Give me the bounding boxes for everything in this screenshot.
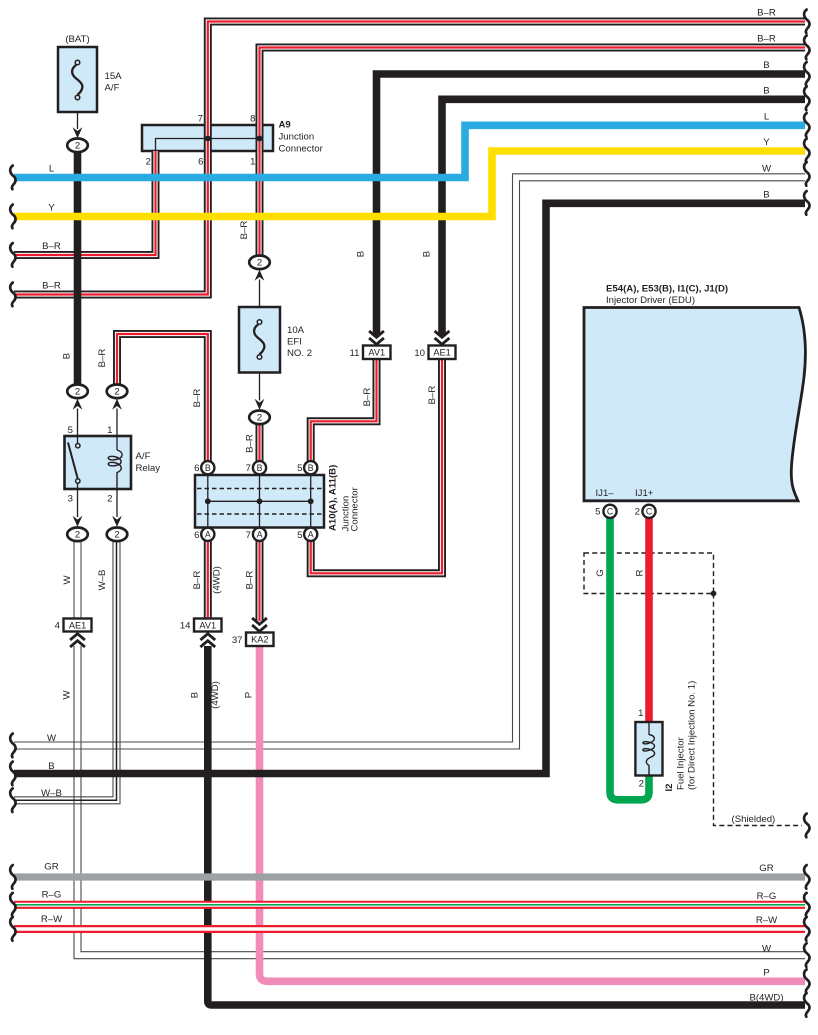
wire W left rail over to right rail xyxy=(14,174,805,749)
wire label W (rotated) xyxy=(62,575,73,585)
svg-text:A/F: A/F xyxy=(105,83,120,94)
wire B-R relay pin 1 up and over to A10 pin 6(B) xyxy=(117,334,208,462)
svg-text:A: A xyxy=(205,530,211,540)
wire label (4WD) (rotated) xyxy=(212,566,223,594)
label A/F Relay xyxy=(136,451,161,474)
arrow and link from connector 2 to relay pin 1 xyxy=(112,399,122,436)
A10 pin numbers xyxy=(194,463,302,541)
wire break squiggle right y=825.5 xyxy=(804,814,809,838)
wire label B (rotated) xyxy=(62,353,73,359)
rail label right B&#8211;R xyxy=(757,8,776,19)
svg-text:6: 6 xyxy=(198,157,203,168)
fuel injector I2 box with coil xyxy=(635,722,662,776)
wire break squiggle left y=800.3 xyxy=(10,788,15,812)
wire W-B left rail to relay pin 2 xyxy=(14,542,120,804)
svg-text:B(4WD): B(4WD) xyxy=(749,992,783,1003)
wire label B (rotated) xyxy=(422,251,433,257)
label (BAT) xyxy=(65,34,89,45)
wire break squiggle right y=1005 xyxy=(804,993,809,1017)
svg-text:E54(A), E53(B), I1(C), J1(D): E54(A), E53(B), I1(C), J1(D) xyxy=(606,284,728,295)
svg-text:2: 2 xyxy=(75,530,80,541)
svg-text:2: 2 xyxy=(639,779,644,790)
wire label B&#8211;R (rotated) xyxy=(239,221,250,240)
fuse 15A A/F box xyxy=(58,47,97,112)
svg-text:A9: A9 xyxy=(279,120,291,131)
wire B thick rail to 11 AV1 xyxy=(377,74,806,336)
svg-text:KA2: KA2 xyxy=(251,635,268,645)
wire break squiggle right y=929 xyxy=(804,917,809,941)
svg-text:Fuel Injector: Fuel Injector xyxy=(676,736,687,790)
EDU pin 2(C) circle IJ1+ xyxy=(642,505,655,518)
label 15A A/F xyxy=(105,71,123,94)
svg-text:Connector: Connector xyxy=(350,486,361,531)
A10 pin 7(B) circle xyxy=(253,461,266,474)
connector 2 above relay pin 5 xyxy=(67,385,88,399)
wire break squiggle left y=929 xyxy=(10,917,15,941)
link relay pin 2 with arrow into connector 2 xyxy=(112,489,122,527)
wire W relay pin 3 to connector 4 AE1 xyxy=(74,542,81,620)
svg-text:B: B xyxy=(763,60,769,71)
rail label right P xyxy=(763,968,769,979)
wire label B&#8211;R (rotated) xyxy=(362,388,373,407)
rail label right B(4WD) xyxy=(749,992,783,1003)
svg-text:GR: GR xyxy=(44,862,58,873)
wire label W&#8211;B (rotated) xyxy=(97,570,108,591)
arrow and link from connector 2 to relay pin 5 xyxy=(73,399,83,436)
svg-text:W: W xyxy=(47,733,57,744)
wire label B (rotated) xyxy=(356,251,367,257)
double chevron into 11 AV1 xyxy=(369,331,384,344)
node A10 bus junction pin 6 xyxy=(205,498,211,504)
svg-text:R–W: R–W xyxy=(756,915,778,926)
wire break squiggle right y=74 xyxy=(804,62,809,86)
double chevron into 37 KA2 xyxy=(252,618,267,631)
connector box 37 KA2 xyxy=(232,633,274,647)
wire label B (rotated) xyxy=(190,692,201,698)
wire B left rail over to right rail xyxy=(14,203,805,773)
svg-text:R–G: R–G xyxy=(757,891,777,902)
svg-text:3: 3 xyxy=(68,494,73,505)
A9 pin numbers xyxy=(146,114,256,168)
svg-text:2: 2 xyxy=(257,413,262,424)
svg-text:2: 2 xyxy=(75,141,80,152)
svg-text:IJ1–: IJ1– xyxy=(596,488,615,499)
rail label right W xyxy=(762,944,772,955)
svg-text:R–G: R–G xyxy=(42,890,62,901)
wire B-R rail through A9 pins 7/6 xyxy=(14,22,805,295)
wire break squiggle right y=981.3 xyxy=(804,969,809,993)
svg-text:W: W xyxy=(62,575,73,585)
rail label right R&#8211;G xyxy=(757,891,777,902)
wire break squiggle right y=877 xyxy=(804,865,809,889)
wire B-R fuse 10A to A10 pin 7(B) xyxy=(256,425,264,462)
svg-text:B: B xyxy=(308,463,314,473)
svg-text:6: 6 xyxy=(194,463,199,474)
wire label B&#8211;R (rotated) xyxy=(192,389,203,408)
svg-text:B–R: B–R xyxy=(97,349,108,368)
wire R-G rail xyxy=(14,901,805,909)
wire break squiggle left y=255 xyxy=(10,243,15,267)
connector 2 above relay pin 1 xyxy=(107,385,128,399)
svg-text:R: R xyxy=(635,569,646,576)
rail label left R&#8211;W xyxy=(41,914,63,925)
connector 2 below relay pin 2 xyxy=(107,528,128,542)
label E54/E53 header xyxy=(606,284,728,307)
wire P from 37 KA2 to bottom rail xyxy=(260,646,806,981)
svg-text:NO. 2: NO. 2 xyxy=(287,348,312,359)
svg-text:B–R: B–R xyxy=(239,221,250,240)
junction connector A10(A),A11(B) box xyxy=(195,475,324,528)
A10 pin 6(B) circle xyxy=(201,461,214,474)
relay A/F box xyxy=(65,436,132,489)
svg-text:B–R: B–R xyxy=(362,388,373,407)
svg-text:A/F: A/F xyxy=(136,451,151,462)
wire break squiggle left y=745.5 xyxy=(10,734,15,758)
svg-text:Y: Y xyxy=(763,137,770,148)
svg-text:B–R: B–R xyxy=(244,571,255,590)
relay pin numbers xyxy=(68,425,113,505)
svg-text:B: B xyxy=(190,692,201,698)
svg-text:7: 7 xyxy=(198,114,203,125)
wire label B&#8211;R (rotated) xyxy=(244,434,255,453)
svg-text:A10(A), A11(B): A10(A), A11(B) xyxy=(328,465,339,531)
svg-text:2: 2 xyxy=(146,157,151,168)
link relay pin 3 with arrow into connector 2 xyxy=(73,489,83,527)
wire break squiggle right y=150.5 xyxy=(804,139,809,163)
svg-text:B: B xyxy=(763,86,769,97)
svg-text:W–B: W–B xyxy=(41,788,62,799)
svg-text:1: 1 xyxy=(638,708,643,719)
wire B-R A10 pin 7(A) to connector 37 KA2 xyxy=(256,541,264,622)
A10 pin 5(B) circle xyxy=(304,461,317,474)
svg-text:W: W xyxy=(762,164,772,175)
rail label left GR xyxy=(44,862,58,873)
svg-text:B–R: B–R xyxy=(427,386,438,405)
connector box 10 AE1 xyxy=(414,346,455,360)
svg-text:8: 8 xyxy=(250,114,255,125)
wire label P (rotated) xyxy=(244,692,255,698)
wire B-R A10 pin 6(A) to connector 14 AV1 xyxy=(204,541,212,620)
svg-text:37: 37 xyxy=(232,635,243,646)
wire break squiggle right y=174 xyxy=(804,162,809,186)
rail label right B&#8211;R xyxy=(757,34,776,45)
rail label left B&#8211;R xyxy=(42,281,61,292)
wire break squiggle left y=773.5 xyxy=(10,762,15,786)
wire label G (rotated) xyxy=(595,569,606,576)
rail label right Y xyxy=(763,137,770,148)
node A9 bus junction at pin 1 xyxy=(257,136,263,142)
wire B(4WD) from 14 AV1 to bottom rail xyxy=(208,646,805,1005)
svg-text:B: B xyxy=(763,190,769,201)
rail label right L xyxy=(764,112,770,123)
svg-text:10A: 10A xyxy=(287,325,305,336)
svg-text:(BAT): (BAT) xyxy=(65,34,89,45)
connector 2 on B-R above fuse 10A xyxy=(249,255,270,269)
svg-text:Connector: Connector xyxy=(279,144,324,155)
svg-text:6: 6 xyxy=(194,530,199,541)
wire B thick rail to 10 AE1 xyxy=(442,99,805,335)
wire B-R rail to A9 pin 2 xyxy=(14,151,156,255)
A10 pin 7(A) circle xyxy=(253,528,266,541)
svg-text:I2: I2 xyxy=(664,783,675,791)
wire label B&#8211;R (rotated) xyxy=(244,571,255,590)
svg-text:2: 2 xyxy=(635,507,640,518)
svg-text:L: L xyxy=(49,164,55,175)
svg-text:(4WD): (4WD) xyxy=(212,566,223,594)
svg-text:2: 2 xyxy=(75,387,80,398)
svg-text:P: P xyxy=(763,968,769,979)
svg-text:W–B: W–B xyxy=(97,570,108,591)
svg-text:B–R: B–R xyxy=(244,434,255,453)
svg-text:Relay: Relay xyxy=(136,463,161,474)
rail label right R&#8211;W xyxy=(756,915,778,926)
svg-text:5: 5 xyxy=(595,507,600,518)
labels IJ1- and IJ1+ xyxy=(596,488,654,499)
wire B-R from A9 pin 1 down to connector 2 above fuse 10A xyxy=(256,151,264,256)
svg-text:P: P xyxy=(244,692,255,698)
wire break squiggle right y=125 xyxy=(804,113,809,137)
svg-text:(for Direct Injection No. 1): (for Direct Injection No. 1) xyxy=(687,681,698,790)
label I2 Fuel Injector (rotated) xyxy=(664,681,698,792)
arrow and link from connector 2 into fuse 10A xyxy=(255,270,265,307)
rail label left Y xyxy=(48,203,55,214)
wire Y rail xyxy=(14,151,805,217)
svg-text:2: 2 xyxy=(107,494,112,505)
shield dashed box around G and R wires xyxy=(584,553,714,594)
svg-text:7: 7 xyxy=(246,530,251,541)
connector box 14 AV1 xyxy=(180,619,222,632)
svg-text:EFI: EFI xyxy=(287,337,302,348)
wire B-R rail through A9 pin 8 xyxy=(260,48,806,152)
rail label right B xyxy=(763,86,769,97)
connector 2 below fuse 10A xyxy=(249,411,270,425)
label A10(A), A11(B) Junction Connector (rotated) xyxy=(328,465,361,532)
svg-text:B–R: B–R xyxy=(757,8,776,19)
svg-text:5: 5 xyxy=(68,425,73,436)
wire L rail xyxy=(14,125,805,177)
rail label right B xyxy=(763,60,769,71)
svg-text:B: B xyxy=(205,463,211,473)
svg-text:7: 7 xyxy=(246,463,251,474)
double chevron below 14 AV1 xyxy=(200,634,215,647)
svg-text:4: 4 xyxy=(55,621,61,632)
double chevron into 10 AE1 xyxy=(435,331,450,344)
wire label W (rotated) xyxy=(62,690,73,700)
svg-text:B–R: B–R xyxy=(192,571,203,590)
svg-text:Junction: Junction xyxy=(279,132,315,143)
fuse 15A output link with arrow into connector 2 xyxy=(73,112,83,138)
svg-text:R–W: R–W xyxy=(41,914,63,925)
rail label right B xyxy=(763,190,769,201)
svg-text:11: 11 xyxy=(350,348,360,359)
svg-text:AE1: AE1 xyxy=(433,348,450,358)
rail label left L xyxy=(49,164,55,175)
wire break squiggle right y=47.5 xyxy=(804,36,809,60)
svg-text:B: B xyxy=(356,251,367,257)
rail label left B&#8211;R xyxy=(42,241,61,252)
svg-text:5: 5 xyxy=(297,463,302,474)
svg-text:W: W xyxy=(62,690,73,700)
injector driver EDU box xyxy=(584,308,805,501)
wire break squiggle right y=21.5 xyxy=(804,10,809,34)
wire G from EDU IJ1- to injector pin 2 xyxy=(610,518,649,800)
wire label B&#8211;R (rotated) xyxy=(97,349,108,368)
svg-text:14: 14 xyxy=(180,621,191,632)
wire B-R from connector 10 AE1 down-left-up to A10 pin 5(A) xyxy=(311,359,442,573)
A10 pin 5(A) circle xyxy=(304,528,317,541)
wire break squiggle right y=904.8 xyxy=(804,893,809,917)
svg-text:2: 2 xyxy=(114,530,119,541)
node A10 bus junction pin 5 xyxy=(308,498,314,504)
svg-text:2: 2 xyxy=(257,258,262,269)
connector 2 below fuse 15A xyxy=(67,139,88,153)
wire R from EDU IJ1+ to injector pin 1 xyxy=(645,518,653,724)
svg-text:C: C xyxy=(646,507,653,517)
svg-text:(Shielded): (Shielded) xyxy=(732,814,776,825)
label 10A EFI NO. 2 xyxy=(287,325,312,359)
svg-text:GR: GR xyxy=(759,863,773,874)
svg-text:B: B xyxy=(257,463,263,473)
A10 pin 6(A) circle xyxy=(201,528,214,541)
wire B thick from fuse 15A to relay pin 5 xyxy=(74,152,82,385)
rail label right GR xyxy=(759,863,773,874)
connector box 11 AV1 xyxy=(350,346,391,360)
wire break squiggle left y=877 xyxy=(10,865,15,889)
wire break squiggle right y=203 xyxy=(804,191,809,215)
wire W from 4 AE1 down to right rail xyxy=(74,646,805,959)
svg-text:15A: 15A xyxy=(105,71,123,82)
wire break squiggle left y=216.5 xyxy=(10,205,15,229)
node A10 bus junction pin 7 xyxy=(257,498,263,504)
node shield drain junction xyxy=(711,591,717,597)
junction connector A9 box xyxy=(142,125,273,151)
svg-text:B: B xyxy=(62,353,73,359)
label A9 Junction Connector xyxy=(279,120,324,155)
svg-text:AE1: AE1 xyxy=(69,620,86,630)
svg-text:Injector Driver (EDU): Injector Driver (EDU) xyxy=(606,295,695,306)
svg-text:B: B xyxy=(48,761,54,772)
wire label R (rotated) xyxy=(635,569,646,576)
svg-text:B–R: B–R xyxy=(42,241,61,252)
wire break squiggle left y=904.8 xyxy=(10,893,15,917)
rail label left B xyxy=(48,761,54,772)
EDU pin 5(C) circle IJ1- xyxy=(603,505,616,518)
svg-text:5: 5 xyxy=(297,530,302,541)
injector pin numbers xyxy=(638,708,644,790)
svg-text:Y: Y xyxy=(48,203,55,214)
svg-text:B–R: B–R xyxy=(192,389,203,408)
svg-text:A: A xyxy=(308,530,314,540)
svg-text:AV1: AV1 xyxy=(199,620,216,630)
connector box 4 AE1 xyxy=(55,619,92,632)
double chevron below 4 AE1 xyxy=(70,634,85,647)
svg-text:B–R: B–R xyxy=(42,281,61,292)
wire GR rail xyxy=(14,873,805,880)
node A9 bus junction at pin 6 xyxy=(205,136,211,142)
svg-text:G: G xyxy=(595,569,606,576)
svg-text:1: 1 xyxy=(250,157,255,168)
link fuse 10A output with arrow into connector 2 xyxy=(255,373,265,410)
rail label right W xyxy=(762,164,772,175)
svg-text:1: 1 xyxy=(107,425,112,436)
wire R-W rail xyxy=(14,925,805,933)
connector 2 below relay pin 3 xyxy=(67,528,88,542)
svg-text:B: B xyxy=(422,251,433,257)
wire break squiggle right y=98.5 xyxy=(804,87,809,111)
wire break squiggle left y=294.5 xyxy=(10,283,15,307)
svg-text:L: L xyxy=(764,112,770,123)
svg-text:A: A xyxy=(257,530,263,540)
wire break squiggle left y=177.5 xyxy=(10,166,15,190)
svg-text:AV1: AV1 xyxy=(368,348,385,358)
fuse 10A EFI NO. 2 box xyxy=(239,307,280,373)
wire break squiggle right y=955.2 xyxy=(804,943,809,967)
svg-text:C: C xyxy=(607,507,614,517)
wire label B&#8211;R (rotated) xyxy=(427,386,438,405)
rail label left W xyxy=(47,733,57,744)
rail label left R&#8211;G xyxy=(42,890,62,901)
rail label left W&#8211;B xyxy=(41,788,62,799)
label (Shielded) xyxy=(732,814,776,825)
svg-text:B–R: B–R xyxy=(757,34,776,45)
shield dashed drain wire to (Shielded) xyxy=(714,594,803,826)
svg-text:IJ1+: IJ1+ xyxy=(635,488,654,499)
wire label (4WD) (rotated) xyxy=(210,681,221,709)
svg-text:10: 10 xyxy=(414,348,425,359)
wire label B&#8211;R (rotated) xyxy=(192,571,203,590)
svg-text:2: 2 xyxy=(114,387,119,398)
svg-text:(4WD): (4WD) xyxy=(210,681,221,709)
svg-text:W: W xyxy=(762,944,772,955)
EDU pin numbers xyxy=(595,507,640,518)
wire B-R from connector 11 AV1 down to A10 pin 5(B) xyxy=(311,359,377,462)
